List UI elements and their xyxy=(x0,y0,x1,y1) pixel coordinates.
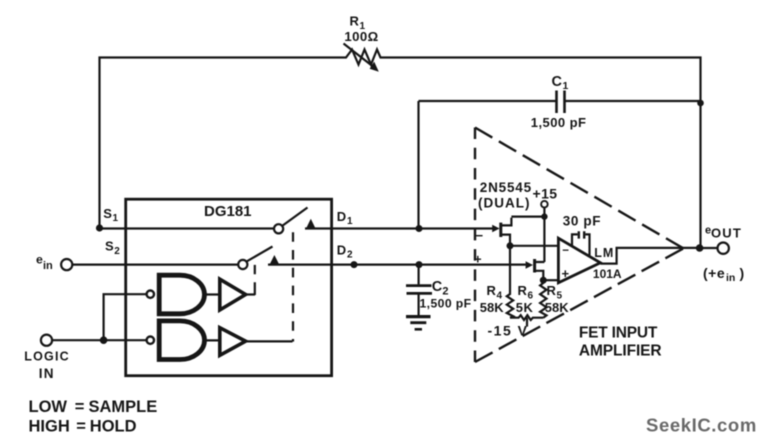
svg-text:C: C xyxy=(432,279,443,295)
svg-text:D: D xyxy=(337,243,346,258)
svg-text:+15: +15 xyxy=(533,186,558,202)
svg-text:LM: LM xyxy=(594,246,614,260)
svg-text:HIGH: HIGH xyxy=(29,418,70,436)
svg-text:1: 1 xyxy=(563,80,569,92)
svg-text:LOGIC: LOGIC xyxy=(24,349,70,363)
svg-text:+: + xyxy=(562,266,570,281)
svg-text:(DUAL): (DUAL) xyxy=(478,196,531,211)
svg-text:S: S xyxy=(103,206,112,221)
svg-text:SAMPLE: SAMPLE xyxy=(89,398,158,416)
svg-text:30 pF: 30 pF xyxy=(563,214,601,229)
svg-text:100Ω: 100Ω xyxy=(344,29,378,44)
svg-text:R: R xyxy=(518,283,528,298)
svg-text:−: − xyxy=(476,228,484,243)
svg-text:(+e: (+e xyxy=(703,265,725,281)
svg-text:R: R xyxy=(350,14,360,29)
svg-text:SeekIC.com: SeekIC.com xyxy=(646,414,757,435)
svg-text:D: D xyxy=(337,209,346,224)
svg-text:R: R xyxy=(487,283,497,298)
svg-text:2: 2 xyxy=(114,246,120,257)
svg-text:AMPLIFIER: AMPLIFIER xyxy=(579,343,662,360)
svg-text:=: = xyxy=(76,418,86,436)
svg-text:HOLD: HOLD xyxy=(90,418,137,436)
svg-text:1,500 pF: 1,500 pF xyxy=(531,115,587,130)
svg-text:58K: 58K xyxy=(545,300,569,315)
svg-text:OUT: OUT xyxy=(711,226,742,241)
svg-text:2N5545: 2N5545 xyxy=(480,180,532,195)
svg-text:LOW: LOW xyxy=(29,398,68,416)
svg-text:2: 2 xyxy=(347,250,353,261)
svg-text:101A: 101A xyxy=(593,267,622,281)
svg-text:FET INPUT: FET INPUT xyxy=(579,325,658,342)
svg-text:in: in xyxy=(43,260,53,272)
svg-text:+: + xyxy=(474,252,482,267)
svg-text:58K: 58K xyxy=(480,300,504,315)
svg-text:1,500 pF: 1,500 pF xyxy=(420,297,472,311)
svg-text:C: C xyxy=(552,74,563,90)
svg-text:=: = xyxy=(75,398,85,416)
svg-text:S: S xyxy=(105,239,114,254)
svg-text:): ) xyxy=(740,265,745,281)
svg-text:R: R xyxy=(547,283,557,298)
svg-text:1: 1 xyxy=(347,216,353,227)
svg-text:−: − xyxy=(562,245,569,257)
svg-text:5K: 5K xyxy=(516,300,534,315)
svg-text:in: in xyxy=(726,272,735,284)
svg-text:IN: IN xyxy=(39,366,55,381)
svg-text:1: 1 xyxy=(113,213,119,224)
svg-text:DG181: DG181 xyxy=(204,203,252,220)
svg-text:-15 V: -15 V xyxy=(488,323,529,339)
svg-text:e: e xyxy=(36,253,43,267)
